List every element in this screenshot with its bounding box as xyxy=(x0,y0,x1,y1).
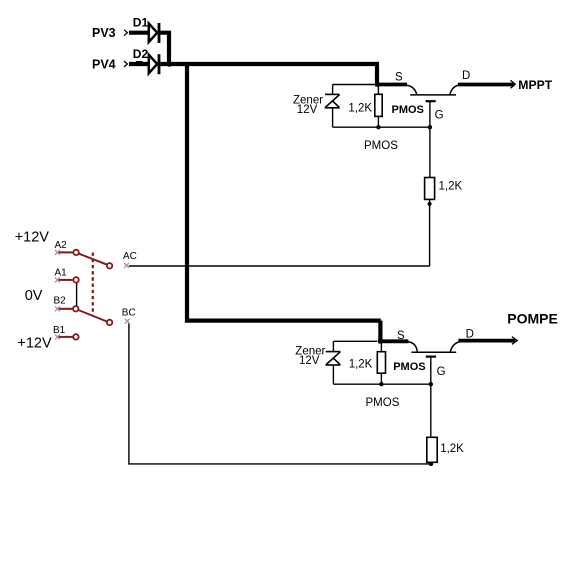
svg-text:+12V: +12V xyxy=(17,335,52,351)
svg-text:1,2K: 1,2K xyxy=(440,443,464,455)
svg-text:PMOS: PMOS xyxy=(364,140,398,152)
svg-text:PV3: PV3 xyxy=(92,26,116,40)
svg-text:BC: BC xyxy=(122,308,136,319)
svg-text:12V: 12V xyxy=(297,104,318,116)
svg-text:0V: 0V xyxy=(25,288,43,304)
svg-text:S: S xyxy=(395,72,403,84)
svg-text:G: G xyxy=(435,110,444,122)
svg-text:12V: 12V xyxy=(299,355,320,367)
svg-text:AC: AC xyxy=(123,251,137,262)
svg-text:A1: A1 xyxy=(55,268,68,279)
svg-text:S: S xyxy=(397,330,405,342)
svg-text:D: D xyxy=(462,70,470,82)
svg-text:POMPE: POMPE xyxy=(507,310,558,326)
svg-text:1,2K: 1,2K xyxy=(349,359,373,371)
svg-text:1,2K: 1,2K xyxy=(439,181,463,193)
svg-text:PMOS: PMOS xyxy=(393,361,425,373)
svg-text:+12V: +12V xyxy=(15,230,50,246)
svg-text:D: D xyxy=(466,329,474,341)
svg-text:B1: B1 xyxy=(53,325,66,336)
svg-text:MPPT: MPPT xyxy=(518,78,552,92)
svg-text:1,2K: 1,2K xyxy=(348,103,372,115)
svg-text:B2: B2 xyxy=(54,296,67,307)
svg-text:PMOS: PMOS xyxy=(392,104,424,116)
svg-text:PV4: PV4 xyxy=(92,57,116,71)
svg-text:G: G xyxy=(437,366,446,378)
svg-text:PMOS: PMOS xyxy=(366,397,400,409)
svg-text:D2: D2 xyxy=(133,47,149,61)
svg-text:D1: D1 xyxy=(133,15,149,29)
svg-text:A2: A2 xyxy=(55,240,68,251)
